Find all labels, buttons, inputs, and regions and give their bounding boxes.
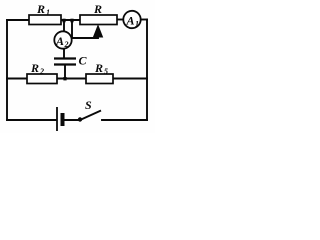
capacitor C bottom plate <box>54 63 76 65</box>
wire A2 to capacitor top plate <box>63 49 65 59</box>
svg-text:R: R <box>94 61 103 75</box>
resistor R2 <box>27 74 57 84</box>
switch S lever <box>80 111 101 121</box>
battery long plate <box>56 107 58 131</box>
wire top right to corner <box>141 19 147 21</box>
svg-text:A: A <box>55 34 64 48</box>
junction dot top wire / A2 branch <box>62 19 65 23</box>
capacitor C top plate <box>54 57 76 59</box>
battery short thick plate <box>61 113 65 126</box>
wire middle right segment <box>113 78 147 80</box>
wire bottom left to battery <box>7 119 56 121</box>
wire top left segment <box>7 19 29 21</box>
ammeter A2 <box>54 31 71 48</box>
wire middle left segment <box>7 78 27 80</box>
wire switch to right corner <box>102 119 147 121</box>
resistor R5 <box>86 74 113 84</box>
resistor R1 <box>29 15 61 25</box>
wire middle between R2 and R5 <box>57 78 86 80</box>
switch S contact dot <box>78 117 82 121</box>
wire top between R and A1 <box>117 19 123 21</box>
junction dot middle wire / capacitor branch <box>63 77 66 80</box>
wire battery to switch <box>64 119 79 121</box>
svg-text:5: 5 <box>104 67 108 76</box>
svg-text:S: S <box>85 98 92 112</box>
svg-text:C: C <box>79 54 88 68</box>
svg-text:1: 1 <box>135 20 139 29</box>
wire rheostat slider: horizontal run <box>72 37 98 39</box>
svg-text:1: 1 <box>46 8 50 17</box>
junction dot top wire / slider branch <box>70 19 73 23</box>
wire right vertical <box>146 20 148 121</box>
svg-text:A: A <box>126 14 135 28</box>
ammeter A1 <box>123 11 140 28</box>
wire left vertical <box>6 20 8 120</box>
svg-text:2: 2 <box>39 67 44 76</box>
svg-text:2: 2 <box>64 40 69 49</box>
rheostat slider arrow <box>94 26 103 38</box>
wire branch top to ammeter A2 <box>63 20 65 32</box>
svg-text:R: R <box>30 61 39 75</box>
rheostat R (box) <box>80 15 117 25</box>
wire rheostat slider: vertical drop <box>71 20 73 38</box>
wire capacitor bottom plate to middle wire <box>64 65 66 79</box>
svg-text:R: R <box>93 2 102 16</box>
svg-text:R: R <box>36 2 45 16</box>
wire top between R1 and R <box>61 19 80 21</box>
